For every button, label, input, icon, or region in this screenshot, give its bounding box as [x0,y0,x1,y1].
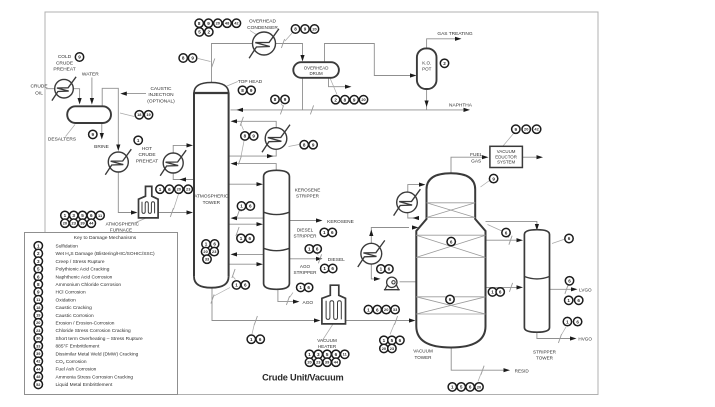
svg-text:8: 8 [244,134,247,139]
svg-text:8: 8 [294,27,297,32]
svg-text:1: 1 [451,385,454,390]
svg-text:6: 6 [505,230,508,235]
svg-text:8: 8 [344,97,347,102]
svg-text:1: 1 [567,298,570,303]
svg-text:6: 6 [307,285,310,290]
svg-text:OVERHEAD: OVERHEAD [249,18,276,24]
svg-text:1: 1 [64,213,67,218]
svg-text:8: 8 [182,56,185,61]
svg-text:DESALTERS: DESALTERS [48,137,76,143]
svg-text:CRUDE: CRUDE [138,152,155,158]
svg-text:TOWER: TOWER [414,355,432,360]
svg-text:1: 1 [566,319,569,324]
svg-text:6: 6 [450,239,453,244]
svg-text:COLD: COLD [58,54,72,60]
svg-text:FUEL: FUEL [470,152,483,158]
svg-text:20: 20 [216,21,220,26]
svg-text:PREHEAT: PREHEAT [136,159,158,165]
svg-text:Oxidation: Oxidation [56,297,77,303]
svg-text:DIESEL: DIESEL [297,228,314,233]
svg-text:6: 6 [90,213,93,218]
svg-text:Crude Unit/Vacuum: Crude Unit/Vacuum [262,372,343,382]
svg-text:1: 1 [240,204,243,209]
svg-text:20: 20 [203,249,207,254]
svg-text:6: 6 [335,352,338,357]
svg-text:9: 9 [492,176,495,181]
svg-text:INJECTION: INJECTION [148,92,174,98]
svg-text:KEROSENE: KEROSENE [327,219,354,225]
svg-text:(OPTIONAL): (OPTIONAL) [147,99,175,105]
svg-text:8: 8 [274,97,277,102]
svg-text:CAUSTIC: CAUSTIC [150,86,172,92]
svg-text:ATMOSPHERIC: ATMOSPHERIC [106,222,140,227]
svg-text:20: 20 [524,127,528,132]
svg-text:20: 20 [307,360,311,365]
svg-text:8: 8 [37,282,40,287]
svg-text:TOWER: TOWER [203,200,221,205]
svg-text:9: 9 [515,127,518,132]
svg-text:AGO: AGO [300,264,311,269]
svg-text:8: 8 [198,21,201,26]
svg-text:Ammonium Chloride Corrosion: Ammonium Chloride Corrosion [56,282,122,288]
svg-text:8: 8 [241,88,244,93]
svg-text:GAS TREATING: GAS TREATING [437,31,473,37]
svg-text:6: 6 [244,283,247,288]
svg-text:STRIPPER: STRIPPER [294,234,318,239]
svg-text:1: 1 [137,138,140,143]
svg-text:1: 1 [323,266,326,271]
svg-text:2: 2 [443,61,446,66]
svg-text:RESID: RESID [515,368,530,373]
svg-text:5: 5 [391,338,394,343]
svg-text:6: 6 [449,297,452,302]
svg-text:6: 6 [469,385,472,390]
svg-text:6: 6 [316,247,319,252]
svg-text:Naphthenic Acid Corrosion: Naphthenic Acid Corrosion [56,274,113,280]
svg-text:9: 9 [207,21,210,26]
svg-text:20: 20 [361,97,365,102]
svg-text:VACUUM: VACUUM [497,149,516,154]
svg-text:6: 6 [331,266,334,271]
svg-text:8: 8 [303,142,306,147]
svg-text:1: 1 [205,242,208,247]
svg-text:6: 6 [376,307,379,312]
svg-text:GAS: GAS [471,159,481,165]
svg-text:9: 9 [250,88,253,93]
svg-text:Creep / Stress Rupture: Creep / Stress Rupture [56,259,105,265]
svg-text:9: 9 [191,56,194,61]
svg-text:9: 9 [353,97,356,102]
svg-text:WATER: WATER [82,72,99,78]
svg-text:POT: POT [422,67,432,72]
svg-text:SYSTEM: SYSTEM [497,160,515,165]
svg-text:5: 5 [326,352,329,357]
svg-text:1: 1 [299,285,302,290]
svg-text:9: 9 [252,134,255,139]
svg-text:6: 6 [577,298,580,303]
svg-text:1: 1 [308,247,311,252]
svg-text:CO2 Corrosion: CO2 Corrosion [56,359,87,365]
svg-text:6: 6 [331,230,334,235]
svg-text:Fuel Ash Corrosion: Fuel Ash Corrosion [56,367,97,373]
svg-text:20: 20 [36,320,40,325]
svg-text:20: 20 [312,26,316,31]
svg-text:3: 3 [72,213,75,218]
svg-text:5: 5 [460,385,463,390]
svg-text:Short term Overheating – Stres: Short term Overheating – Stress Rupture [56,336,144,342]
svg-text:3: 3 [37,259,40,264]
svg-text:1: 1 [491,290,494,295]
svg-text:1: 1 [380,267,383,272]
svg-text:VACUUM: VACUUM [317,338,337,343]
svg-text:DRUM: DRUM [310,71,324,76]
svg-text:Chloride Stress Corrosion Crac: Chloride Stress Corrosion Cracking [56,328,132,334]
svg-text:6: 6 [388,267,391,272]
svg-text:AGO: AGO [303,300,314,306]
svg-text:HVGO: HVGO [578,336,592,341]
svg-text:6: 6 [399,338,402,343]
svg-text:Dissimilar Metal Weld (DMW) Cr: Dissimilar Metal Weld (DMW) Cracking [56,351,139,357]
svg-text:KEROSENE: KEROSENE [295,188,321,193]
svg-text:1: 1 [323,230,326,235]
svg-text:DIESEL: DIESEL [328,257,345,263]
svg-text:6: 6 [168,187,171,192]
svg-text:OVERHEAD: OVERHEAD [304,65,329,70]
svg-text:1: 1 [383,338,386,343]
svg-text:ATMOSPHERIC: ATMOSPHERIC [194,193,229,198]
svg-text:1: 1 [250,337,253,342]
svg-text:885°F Embrittlement: 885°F Embrittlement [56,344,100,350]
svg-text:6: 6 [576,319,579,324]
svg-text:30: 30 [36,336,40,341]
svg-text:20: 20 [384,307,388,312]
svg-text:Caustic Cracking: Caustic Cracking [56,305,93,311]
svg-text:1: 1 [159,187,162,192]
svg-text:20: 20 [177,187,181,192]
svg-text:Wet H2S Damage (Blistering/HIC: Wet H2S Damage (Blistering/HIC/SOHIC/SSC… [56,251,156,257]
svg-text:STRIPPER: STRIPPER [533,349,557,354]
svg-text:1: 1 [37,244,40,249]
svg-text:6: 6 [259,337,262,342]
svg-text:6: 6 [249,236,252,241]
svg-text:9: 9 [78,55,81,60]
svg-text:9: 9 [312,142,315,147]
svg-text:1: 1 [240,236,243,241]
svg-text:9: 9 [284,97,287,102]
svg-text:20: 20 [63,221,67,226]
svg-text:5: 5 [37,267,40,272]
svg-text:PREHEAT: PREHEAT [53,67,75,73]
svg-text:1: 1 [235,283,238,288]
svg-text:20: 20 [477,384,481,389]
svg-text:Key to Damage Mechanisms: Key to Damage Mechanisms [74,235,137,241]
svg-text:9: 9 [92,132,95,137]
svg-text:6: 6 [499,290,502,295]
svg-text:K.O.: K.O. [422,61,431,66]
svg-text:HEATER: HEATER [318,344,337,349]
svg-text:TOP HEAD: TOP HEAD [238,79,263,85]
svg-text:LVGO: LVGO [579,287,592,292]
svg-text:VACUUM: VACUUM [413,349,433,354]
svg-text:5: 5 [81,213,84,218]
svg-text:Erosion / Erosion-Corrosion: Erosion / Erosion-Corrosion [56,321,115,327]
svg-text:Ammonia Stress Corrosion Crack: Ammonia Stress Corrosion Cracking [56,374,134,380]
svg-text:9: 9 [304,27,307,32]
svg-text:20: 20 [382,346,386,351]
svg-text:Sulfidation: Sulfidation [56,244,79,250]
svg-text:Polythionic Acid Cracking: Polythionic Acid Cracking [56,267,110,273]
svg-text:NAPHTHA: NAPHTHA [449,102,473,108]
svg-text:STRIPPER: STRIPPER [294,270,318,275]
svg-text:2: 2 [208,30,211,35]
svg-text:OIL: OIL [35,91,43,97]
svg-text:1: 1 [308,352,311,357]
svg-text:TOWER: TOWER [536,356,554,361]
svg-text:Liquid Metal Embrittlement: Liquid Metal Embrittlement [56,382,113,388]
svg-text:STRIPPER: STRIPPER [296,194,320,199]
svg-text:Caustic Corrosion: Caustic Corrosion [56,313,94,319]
svg-text:6: 6 [213,242,216,247]
svg-text:FURNACE: FURNACE [110,227,132,232]
svg-text:CRUDE: CRUDE [56,60,73,66]
svg-text:CONDENSER: CONDENSER [247,25,278,31]
svg-text:2: 2 [334,97,337,102]
svg-text:BRINE: BRINE [94,144,109,150]
svg-text:6: 6 [568,279,571,284]
svg-text:EDUCTOR: EDUCTOR [495,154,517,159]
svg-text:CRUDE: CRUDE [30,83,47,89]
svg-text:6: 6 [249,204,252,209]
svg-text:6: 6 [37,274,40,279]
svg-text:HOT: HOT [142,146,152,152]
svg-text:3: 3 [317,352,320,357]
svg-text:6: 6 [568,236,571,241]
svg-text:9: 9 [37,290,40,295]
svg-text:1: 1 [367,307,370,312]
svg-text:2: 2 [37,251,40,256]
svg-text:5: 5 [198,30,201,35]
svg-text:HCl Corrosion: HCl Corrosion [56,290,86,296]
